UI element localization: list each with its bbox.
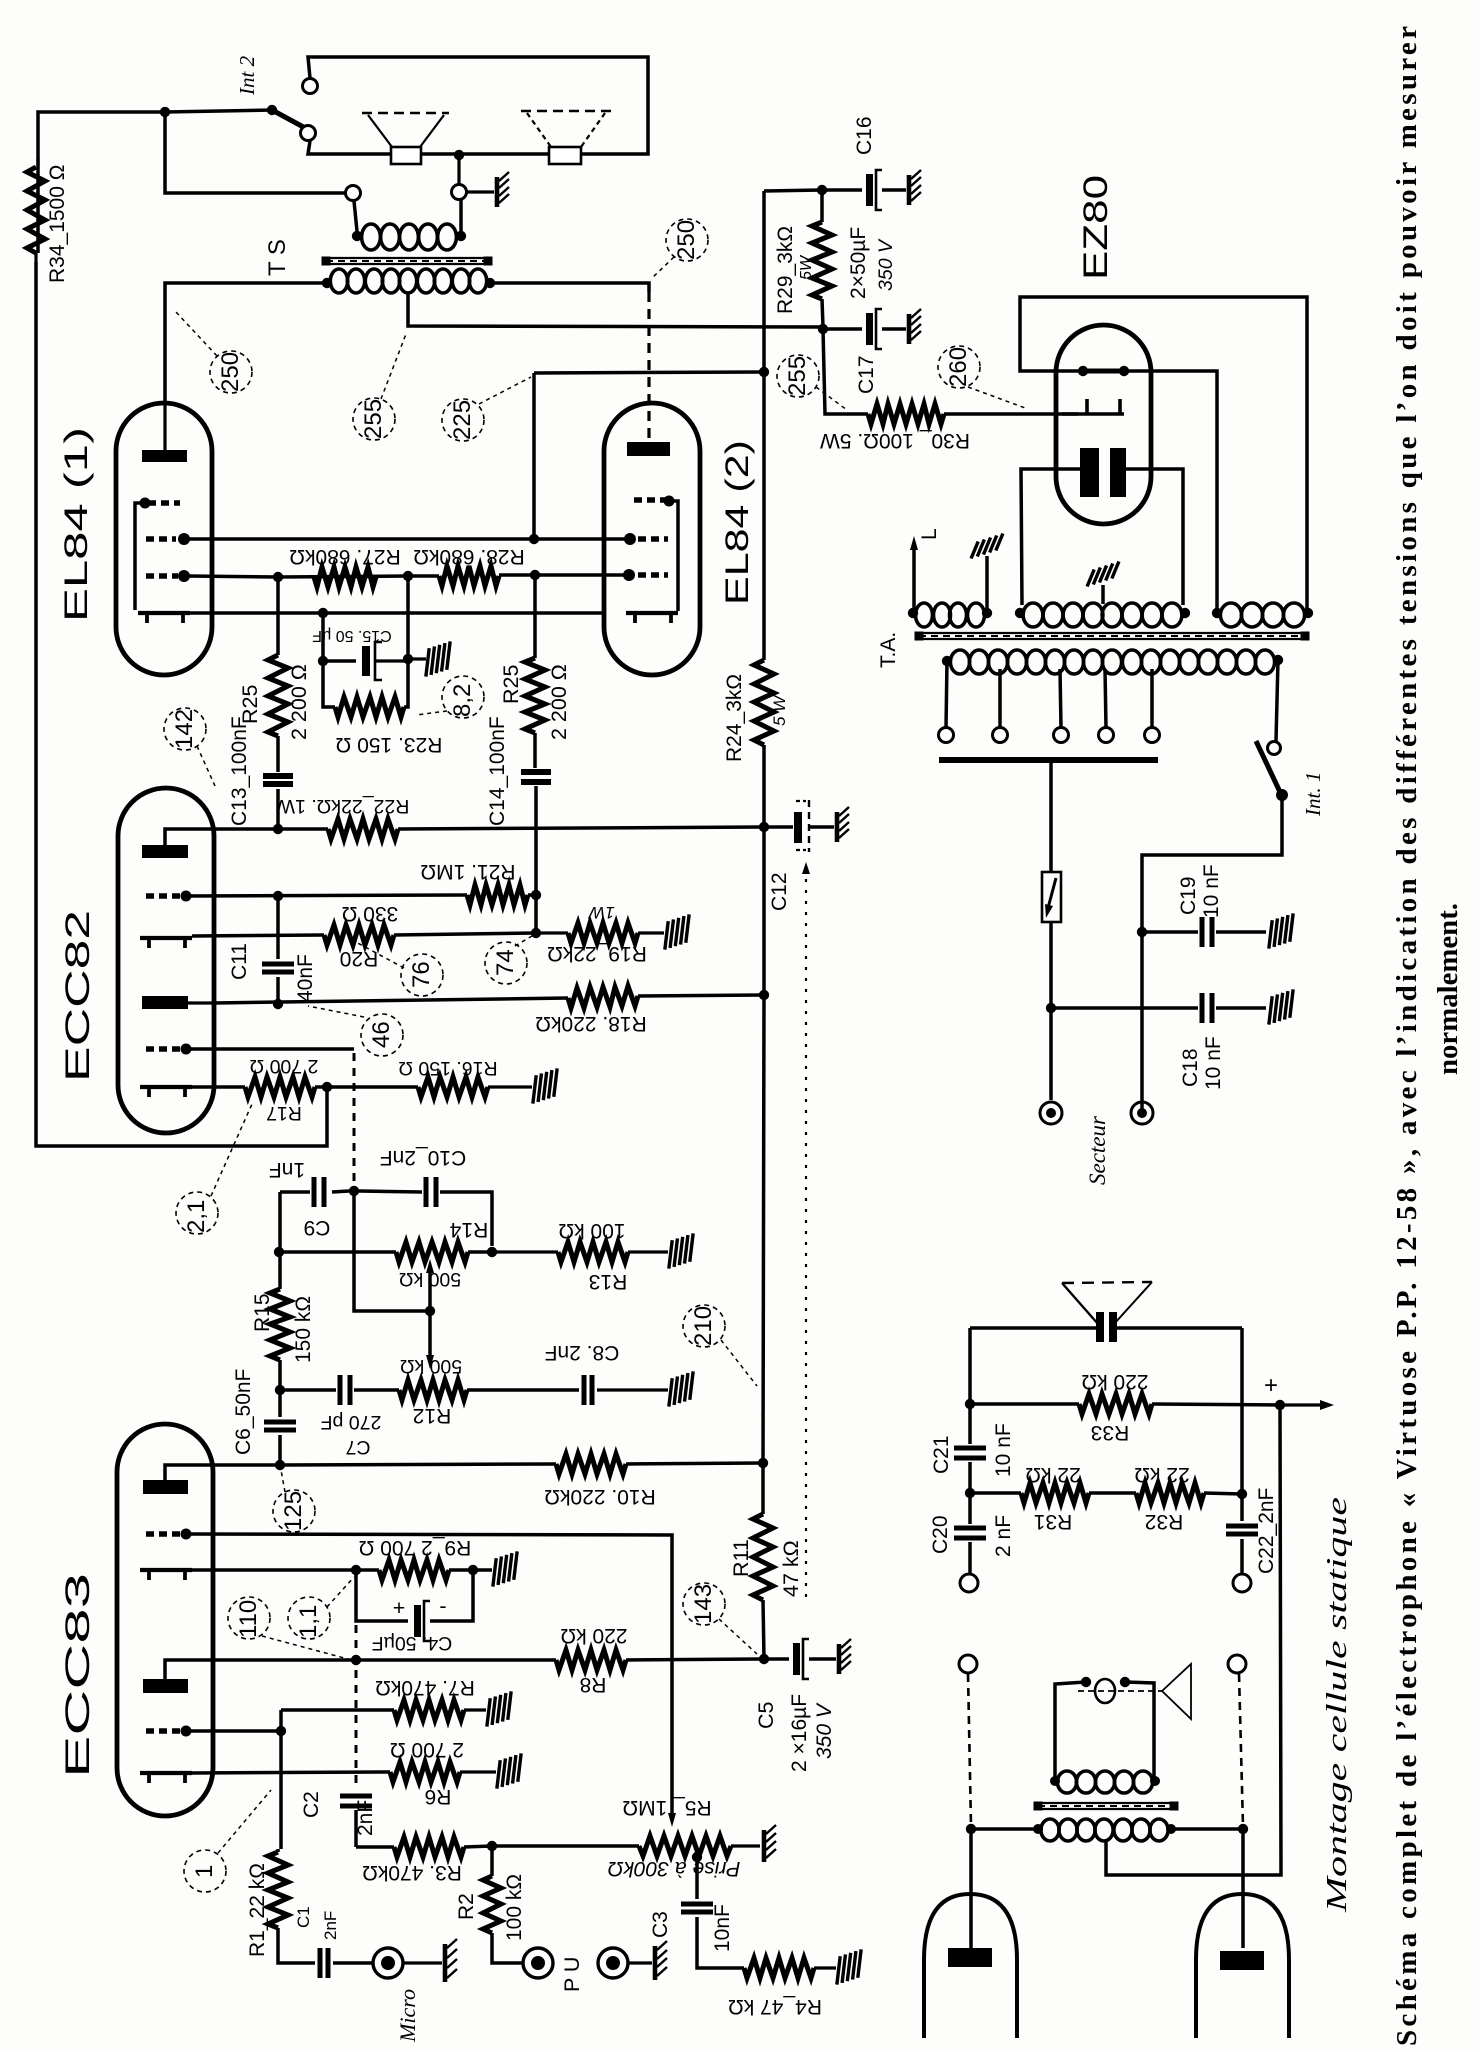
label R25 right <box>499 664 571 740</box>
capacitor C13 100nF <box>263 776 293 829</box>
ground R9 <box>485 1551 525 1586</box>
svg-text:R5_ 1MΩ: R5_ 1MΩ <box>622 1796 711 1819</box>
label R20 <box>340 902 399 970</box>
label C9 1nF <box>269 1158 331 1239</box>
svg-text:2 700 Ω: 2 700 Ω <box>250 1055 319 1077</box>
svg-text:R33: R33 <box>1091 1421 1130 1444</box>
resistor R22 22k 1W <box>328 819 764 839</box>
loudspeaker HP2 <box>521 111 611 164</box>
svg-text:C20: C20 <box>929 1515 952 1554</box>
svg-text:R15: R15 <box>251 1293 274 1332</box>
callout 210 <box>683 1305 757 1386</box>
EL84(1) cathode <box>138 613 190 623</box>
EL84(2) grid3 <box>634 496 678 612</box>
resistor R32 22k <box>1136 1483 1247 1503</box>
callout 8,2 <box>416 676 484 718</box>
svg-text:R19_22kΩ: R19_22kΩ <box>547 942 647 965</box>
switch Int2 contacts <box>301 79 318 141</box>
svg-text:R32: R32 <box>1145 1510 1184 1533</box>
EZ80 plates <box>1078 366 1129 376</box>
svg-text:normalement.: normalement. <box>1432 903 1464 1075</box>
ground PU <box>655 1941 667 1980</box>
svg-text:10nF: 10nF <box>711 1904 734 1952</box>
svg-text:500 kΩ: 500 kΩ <box>400 1355 462 1377</box>
ground C16 <box>909 170 921 205</box>
wire pickup right <box>1239 1674 1243 1948</box>
capacitor C5 16uF <box>764 1639 836 1679</box>
resistor R10 220k <box>556 1454 768 1474</box>
svg-text:C1: C1 <box>294 1906 313 1928</box>
label C10 <box>380 1146 466 1169</box>
EL84(1) grid3 <box>135 498 180 611</box>
callout 125 <box>273 1470 315 1532</box>
svg-text:C16: C16 <box>853 116 876 155</box>
resistor R30 100 5W <box>868 404 1078 424</box>
label C21 <box>930 1423 1015 1477</box>
callout 143 <box>683 1583 757 1654</box>
capacitor C8 2nF <box>467 1375 668 1405</box>
ground C8 <box>661 1371 701 1406</box>
svg-text:T.A.: T.A. <box>877 632 900 668</box>
svg-text:220 kΩ: 220 kΩ <box>560 1624 627 1647</box>
label C6 <box>232 1369 255 1455</box>
terminal Secteur left <box>1040 1102 1062 1124</box>
ground C12 <box>837 807 849 842</box>
svg-text:C4. 50µF: C4. 50µF <box>372 1632 453 1654</box>
label Montage cellule statique <box>1322 1497 1353 1913</box>
svg-text:R27. 680kΩ: R27. 680kΩ <box>289 545 400 568</box>
wire selector to fuse <box>1049 763 1053 872</box>
transformer TA sec left <box>908 603 992 627</box>
label C19 <box>1177 864 1223 918</box>
svg-text:R20: R20 <box>340 947 379 970</box>
resistor R24 3k 5W <box>754 372 774 832</box>
resistor R16 150 <box>327 1077 532 1097</box>
svg-text:R2: R2 <box>455 1893 478 1920</box>
svg-text:10 nF: 10 nF <box>1200 864 1223 918</box>
capacitor C17 50uF <box>823 309 906 349</box>
caption line 1 <box>1391 26 1423 2046</box>
ground TA mid tap <box>1083 561 1123 604</box>
resistor R1 22k <box>268 1849 315 1963</box>
wire ECC83 gridB node <box>186 1710 286 1849</box>
callout 76 <box>354 941 443 996</box>
jack PU right <box>598 1948 652 1978</box>
terminal cell upper right <box>1233 1574 1251 1592</box>
wire speaker right to TS primary right <box>459 200 463 231</box>
label R22 <box>276 795 409 817</box>
svg-text:R14: R14 <box>449 1218 488 1241</box>
svg-text:T S: T S <box>264 239 291 276</box>
callout 255 left <box>353 334 406 440</box>
svg-text:C17: C17 <box>855 355 878 394</box>
label C7 <box>321 1411 382 1458</box>
label C15 50uF <box>312 627 392 644</box>
callout 1,1 <box>288 1577 354 1639</box>
svg-text:C19: C19 <box>1177 876 1200 915</box>
svg-text:46: 46 <box>368 1021 395 1048</box>
transformer TA primary <box>942 650 1283 674</box>
potentiometer R5 1M <box>492 1836 760 1856</box>
ECC83 cathode B <box>140 1773 192 1783</box>
potentiometer R14 500k <box>396 1242 497 1262</box>
tube EL84(1) envelope <box>116 403 212 675</box>
EL84(2) plate <box>627 442 670 456</box>
callout 250 left <box>176 312 252 393</box>
R5 tap to C3 <box>692 1852 702 1899</box>
svg-text:255: 255 <box>360 399 387 439</box>
ECC83 grid A <box>146 1529 192 1540</box>
label C2 <box>300 1791 377 1836</box>
label R29 <box>774 226 815 314</box>
label R11 <box>729 1539 803 1597</box>
resistor R31 22k <box>970 1483 1136 1503</box>
ECC83 grid B <box>146 1726 192 1737</box>
ECC83 cathode A <box>140 1570 192 1580</box>
resistor R3 470k <box>356 1837 497 1857</box>
label C3 <box>649 1904 734 1952</box>
label R7 <box>375 1676 475 1699</box>
svg-text:+: + <box>1264 1372 1278 1399</box>
wire R30 row <box>823 329 868 414</box>
capacitor C11 40nF <box>262 896 294 1004</box>
label C16 <box>853 116 876 155</box>
wire tone left chain <box>274 1192 284 1257</box>
callout 2,1 <box>176 1104 252 1234</box>
wire TA right to Int1 <box>1276 660 1278 741</box>
svg-text:ECC82: ECC82 <box>59 910 97 1082</box>
label R9 <box>359 1536 472 1559</box>
svg-text:R12: R12 <box>413 1404 452 1427</box>
resistor R8 220k <box>556 1650 760 1670</box>
svg-text:2 200 Ω: 2 200 Ω <box>547 664 571 740</box>
resistor R2 100k <box>483 1846 522 1963</box>
transformer TA core <box>915 632 1310 641</box>
C12 chassis dash line <box>802 862 810 1598</box>
ground TA left winding <box>967 533 1007 611</box>
switch Int1 <box>1256 741 1288 801</box>
svg-text:110: 110 <box>235 1600 262 1638</box>
label ECC82 <box>59 910 97 1082</box>
wire screen row g2 <box>186 534 630 544</box>
svg-text:C15. 50 µF: C15. 50 µF <box>312 627 392 644</box>
svg-text:R11: R11 <box>729 1539 753 1577</box>
ECC82 cathode B <box>140 1087 192 1097</box>
EL84(1) plate <box>142 403 187 462</box>
electrode right housing <box>1196 1894 1289 2038</box>
label R23 <box>336 733 443 756</box>
wire pickup bottom right <box>1171 1824 1248 1834</box>
label R32 <box>1134 1463 1189 1533</box>
svg-text:2 nF: 2 nF <box>992 1515 1015 1557</box>
resistor R28 680k <box>439 566 499 586</box>
label R13 <box>558 1219 627 1293</box>
capacitor C4 50uF loop <box>356 1570 473 1641</box>
svg-text:C5: C5 <box>754 1701 778 1729</box>
ground C18 <box>1261 989 1301 1024</box>
ground C17 <box>909 309 921 344</box>
capacitor C1 2nF <box>320 1948 372 1978</box>
svg-text:220 kΩ: 220 kΩ <box>1081 1370 1148 1393</box>
svg-text:Prise à 300kΩ: Prise à 300kΩ <box>608 1857 741 1880</box>
label R34 <box>46 165 69 283</box>
wire grid row g1 EL84s <box>188 570 625 582</box>
label R24 <box>723 674 789 762</box>
wire ECC82 plateB row <box>214 998 568 1009</box>
ground Micro <box>445 1939 457 1982</box>
wire ECC82 gridA row <box>186 891 467 901</box>
label C17 <box>855 355 878 394</box>
wire TS secondary right to EL84(2) plate <box>490 283 649 440</box>
svg-text:R34_1500 Ω: R34_1500 Ω <box>46 165 69 283</box>
EL84(2) grid1 <box>623 569 668 581</box>
svg-text:+: + <box>393 1596 406 1620</box>
svg-text:R10. 220kΩ: R10. 220kΩ <box>544 1485 655 1508</box>
capacitor C20 2nF <box>954 1493 986 1573</box>
capacitor C7 270pF <box>280 1375 399 1405</box>
ground R4 <box>829 1949 869 1984</box>
label R30 <box>820 429 970 452</box>
svg-text:R7. 470kΩ: R7. 470kΩ <box>375 1676 475 1699</box>
resistor R20 330 <box>324 925 541 945</box>
svg-text:255: 255 <box>784 356 811 396</box>
node C9 C10 <box>349 1186 359 1196</box>
label C22 <box>1255 1488 1278 1574</box>
wire ECC82 cathodeA row <box>192 935 324 936</box>
callout 74 <box>485 936 532 984</box>
svg-text:P U: P U <box>560 1957 584 1992</box>
svg-text:Micro: Micro <box>395 1989 420 2043</box>
ground C5 <box>839 1639 851 1674</box>
label Int 2 <box>235 55 259 96</box>
capacitor C6 50nF <box>264 1390 296 1465</box>
svg-text:2,1: 2,1 <box>183 1200 210 1233</box>
wire 225 screen feed <box>532 373 536 539</box>
label C11 <box>228 943 317 1002</box>
svg-text:2×50µF: 2×50µF <box>847 227 870 299</box>
ground R5 <box>764 1825 776 1862</box>
pickup coil bottom <box>1033 1819 1176 1841</box>
terminal Secteur right <box>1131 1102 1153 1124</box>
pickup coil top <box>1050 1771 1160 1793</box>
transformer TA sec right HV <box>1212 603 1313 627</box>
label Micro <box>395 1989 420 2043</box>
transformer TS primary <box>352 224 466 250</box>
svg-text:-: - <box>439 1594 446 1618</box>
callout 142 <box>164 708 215 786</box>
svg-text:C8. 2nF: C8. 2nF <box>545 1341 620 1364</box>
svg-text:210: 210 <box>690 1306 717 1346</box>
label R27 <box>289 545 400 568</box>
ECC83 plate B <box>143 1660 213 1693</box>
R12 wiper <box>426 1311 434 1369</box>
resistor R25 left 2200 <box>268 579 288 772</box>
EZ80 cathode <box>1062 399 1124 414</box>
wire pickup bottom left <box>971 1827 1038 1831</box>
svg-text:C2: C2 <box>300 1791 323 1818</box>
wire feedback top from R34 to speaker switch <box>38 107 170 253</box>
label Secteur <box>1085 1115 1110 1185</box>
svg-text:142: 142 <box>171 709 198 749</box>
wire R14 row <box>279 1250 396 1254</box>
svg-text:C12: C12 <box>768 872 791 911</box>
capacitor C18 10nF <box>1051 993 1266 1023</box>
resistor R4 47k <box>744 1958 836 1978</box>
label C8 <box>545 1341 620 1364</box>
transformer TA sec mid heater <box>1015 603 1190 627</box>
wire R23 right to g1 node <box>403 578 413 707</box>
label C18 <box>1179 1036 1225 1090</box>
ground C15 <box>408 641 458 676</box>
callout 250 right <box>652 219 708 278</box>
label C4 <box>372 1594 453 1654</box>
label T.A. <box>877 632 900 668</box>
svg-text:330 Ω: 330 Ω <box>342 902 399 925</box>
wire ECC82 plateA row R22 <box>214 824 328 834</box>
capacitor C3 10nF <box>681 1904 744 1968</box>
label R18 <box>535 1012 646 1035</box>
svg-text:350 V: 350 V <box>813 1702 836 1759</box>
cell top loop <box>970 1326 1242 1330</box>
svg-text:1nF: 1nF <box>269 1158 305 1181</box>
resistor R34 1500ohm <box>27 158 45 262</box>
R14 wiper <box>354 1194 435 1316</box>
label R12 <box>400 1355 462 1427</box>
svg-text:R3. 470kΩ: R3. 470kΩ <box>362 1861 462 1884</box>
EL84(1) grid2 screen <box>146 533 190 545</box>
svg-text:8,2: 8,2 <box>449 684 476 717</box>
EZ80 filament <box>1080 448 1126 497</box>
caption line 2 <box>1432 903 1464 1075</box>
tube EL84(2) envelope <box>604 403 700 675</box>
resistor R7 470k <box>281 1700 486 1720</box>
wire to switch Int2 <box>165 105 277 115</box>
label C1 <box>294 1906 340 1940</box>
wire plus to pickup <box>1106 1405 1281 1875</box>
ECC82 cathode A <box>140 938 192 948</box>
svg-text:47 kΩ: 47 kΩ <box>779 1540 803 1597</box>
capacitor C19 10nF <box>1142 917 1266 947</box>
label R25 left <box>238 664 311 740</box>
label R17 <box>250 1055 319 1124</box>
svg-text:250: 250 <box>673 220 700 260</box>
ground R7 <box>479 1691 519 1726</box>
svg-text:R4_47 kΩ: R4_47 kΩ <box>728 1995 822 2018</box>
label R19 <box>547 903 647 965</box>
label 2x50uF <box>847 227 897 299</box>
wire bus top <box>759 191 769 377</box>
node speaker common <box>452 150 467 200</box>
callout 225 <box>442 377 531 441</box>
EL84(1) grid1 <box>146 570 190 582</box>
resistor R11 47k <box>753 1463 773 1664</box>
svg-text:C7: C7 <box>346 1436 371 1458</box>
svg-text:2 ×16µF: 2 ×16µF <box>788 1694 811 1772</box>
svg-text:76: 76 <box>408 961 435 988</box>
svg-text:C13_100nF: C13_100nF <box>228 716 251 826</box>
svg-text:100 kΩ: 100 kΩ <box>558 1219 625 1242</box>
svg-text:2nF: 2nF <box>354 1800 377 1836</box>
EZ80 heater wires <box>1021 469 1183 605</box>
voltage selector bar <box>939 757 1158 763</box>
resistor R25 right 2200 <box>525 577 545 768</box>
ground C19 <box>1261 913 1301 948</box>
svg-text:2nF: 2nF <box>321 1911 340 1940</box>
svg-text:10 nF: 10 nF <box>992 1423 1015 1477</box>
wire fuse to secteur <box>1046 922 1056 1100</box>
EZ80 plate wire right <box>1124 371 1217 609</box>
resistor R19 22k 1W <box>536 923 664 943</box>
svg-text:R18. 220kΩ: R18. 220kΩ <box>535 1012 646 1035</box>
capacitor C2 2nF <box>340 1625 372 1847</box>
terminal cell upper left <box>960 1574 978 1592</box>
svg-text:Int 2: Int 2 <box>235 55 259 96</box>
callout 260 <box>938 346 1028 409</box>
svg-text:R8: R8 <box>580 1673 607 1696</box>
svg-text:1: 1 <box>191 1865 218 1878</box>
resistor R15 150k <box>270 1252 290 1395</box>
wire cathode tap to C15 R23 <box>318 613 356 707</box>
svg-text:R23. 150 Ω: R23. 150 Ω <box>336 733 443 756</box>
label EZ80 <box>1077 175 1115 280</box>
svg-text:R22_22kΩ. 1W: R22_22kΩ. 1W <box>276 795 409 817</box>
capacitor C9 1nF <box>280 1177 349 1207</box>
svg-text:EL84 (1): EL84 (1) <box>58 427 94 622</box>
label R15 <box>251 1293 315 1363</box>
svg-text:R25: R25 <box>499 665 523 704</box>
wire feedback vertical R34 to R17 node <box>36 262 327 1146</box>
svg-text:C14_100nF: C14_100nF <box>486 716 509 826</box>
wire ECC82 gridB to tone <box>186 1049 354 1188</box>
wire bus middle <box>763 827 764 1463</box>
ECC82 grid B <box>146 1044 192 1055</box>
ECC82 plate B <box>142 996 214 1009</box>
svg-text:L: L <box>918 528 941 540</box>
TA primary taps <box>939 661 1160 743</box>
wire ECC83 plateA row R10 <box>213 1460 556 1470</box>
speaker enclosure box <box>308 57 648 154</box>
label C14 <box>486 716 509 826</box>
wire TS center tap B+ <box>408 292 823 327</box>
resistor R33 220k <box>970 1394 1285 1414</box>
svg-text:350 V: 350 V <box>875 238 897 291</box>
svg-text:250: 250 <box>217 352 244 392</box>
capacitor C14 100nF <box>521 772 551 895</box>
svg-text:1W: 1W <box>587 903 614 922</box>
wire cell right chain <box>1240 1328 1244 1494</box>
ECC82 plate A <box>142 829 214 858</box>
svg-text:C18: C18 <box>1179 1048 1202 1087</box>
transformer TS core <box>322 257 493 266</box>
svg-text:40nF: 40nF <box>294 954 317 1002</box>
wire bus screens row <box>534 372 764 373</box>
svg-text:C11: C11 <box>228 943 251 980</box>
capacitor C21 10nF <box>954 1404 986 1498</box>
wire Int1 down <box>1137 795 1282 937</box>
resistor R6 2700 <box>390 1762 496 1782</box>
label C20 <box>929 1515 1015 1557</box>
svg-text:R29_3kΩ: R29_3kΩ <box>774 226 797 314</box>
label R14 <box>399 1218 488 1290</box>
svg-text:100 kΩ: 100 kΩ <box>503 1874 526 1941</box>
resistor R29 3k 5W <box>812 190 832 334</box>
svg-text:150 kΩ: 150 kΩ <box>292 1296 315 1363</box>
svg-text:74: 74 <box>492 949 519 976</box>
svg-text:5 W: 5 W <box>770 694 789 726</box>
svg-text:Secteur: Secteur <box>1085 1115 1110 1185</box>
svg-text:R9_2 700 Ω: R9_2 700 Ω <box>359 1536 472 1559</box>
svg-text:R13: R13 <box>589 1270 628 1293</box>
